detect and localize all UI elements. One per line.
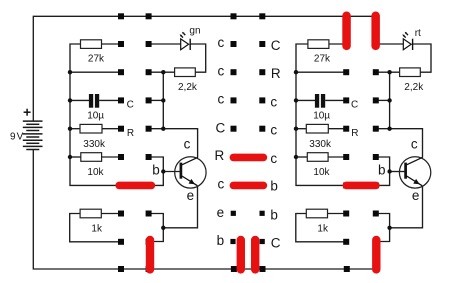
- wire junction (70,72.2): [68, 70, 72, 74]
- node contact x346 row 5: [343, 154, 349, 160]
- wire emitter T1 down: [163, 186, 197, 228]
- node contact x376 row 1: [373, 41, 379, 47]
- wire junction (163.3,171.5): [161, 169, 165, 173]
- svg-text:R: R: [127, 128, 134, 139]
- node contact x262 row 8: [260, 239, 265, 244]
- resistor 2,2k left: [175, 68, 198, 93]
- node contact x234 bottom rail: [231, 266, 237, 272]
- svg-text:c: c: [411, 137, 418, 152]
- wire junction (296,72.2): [294, 70, 298, 74]
- svg-text:1k: 1k: [317, 223, 329, 234]
- resistor 10k left: [81, 153, 105, 178]
- wire base T2: [390, 171, 405, 173]
- LED rt right: [402, 28, 421, 50]
- node contact x234 top rail: [231, 13, 237, 19]
- svg-text:330k: 330k: [83, 139, 106, 150]
- contact squares: [118, 13, 379, 272]
- node contact x346 row 8: [343, 239, 349, 245]
- node contact x234 row 2: [231, 69, 237, 75]
- wire 10u right half to node C: [325, 99, 344, 101]
- capacitor 10u right: [313, 94, 330, 122]
- node contact x262 row 1: [259, 41, 265, 47]
- wire junction (70,100.4): [68, 98, 72, 102]
- wire 1k left loop to node b: [70, 214, 119, 242]
- wire 10k right half left: [296, 156, 307, 158]
- wire 2.2k right left side: [377, 71, 400, 73]
- node contact x149 row 8: [146, 239, 152, 245]
- svg-text:9V: 9V: [10, 131, 24, 142]
- node contact x376 row 4: [373, 126, 379, 132]
- red jumpers: [115, 12, 380, 274]
- wire 330k right to node R: [102, 128, 119, 130]
- wire junction (70,128.7): [68, 127, 72, 131]
- node contact x121 row 7: [118, 211, 124, 217]
- jumper left bus to base T1: [115, 182, 155, 190]
- node contact x376 row 7: [373, 211, 379, 217]
- wire 10k left: [70, 156, 81, 158]
- wire 330k left: [70, 128, 80, 130]
- jumper emitter T2 to ground: [372, 236, 380, 274]
- wire 27k left to node: [102, 43, 120, 45]
- node contact x376 row 5: [373, 154, 379, 160]
- svg-text:b: b: [378, 163, 386, 178]
- node contact x376 bottom rail: [373, 266, 379, 272]
- svg-text:R: R: [214, 148, 224, 163]
- node contact x346 row 4: [343, 126, 349, 132]
- svg-text:c: c: [184, 137, 191, 152]
- resistor 10k right: [307, 153, 330, 178]
- svg-text:C: C: [351, 99, 358, 110]
- resistor 330k right: [306, 124, 332, 150]
- node contact x262 row 3: [259, 97, 265, 103]
- node letters middle right column: [270, 38, 281, 251]
- node contact x149 bottom rail: [146, 266, 152, 272]
- wire 1k right half loop to node b: [296, 214, 345, 242]
- svg-text:c: c: [270, 123, 277, 138]
- svg-text:R: R: [271, 66, 281, 81]
- transistor T1: [152, 137, 206, 203]
- wire node to base net T1: [151, 157, 163, 185]
- svg-text:e: e: [412, 188, 420, 203]
- node contact x262 row 4: [259, 126, 265, 132]
- wire junction (163.3,72.2): [161, 70, 165, 74]
- svg-text:10µ: 10µ: [313, 111, 330, 122]
- node contact x346 row 1: [343, 41, 349, 47]
- wire left vertical net c: [162, 72, 164, 129]
- node contact x121 row 8: [118, 239, 124, 245]
- jumper middle b to ground: [237, 236, 245, 274]
- wire LED gn cathode down to 2.2k: [190, 44, 205, 72]
- node contact x376 row 3: [373, 97, 379, 103]
- node contact x121 row 3: [118, 97, 124, 103]
- wire right bus rail: [296, 44, 343, 185]
- svg-text:330k: 330k: [309, 139, 332, 150]
- node contact x233 row 7: [231, 211, 236, 216]
- node contact x121 row 2: [118, 69, 124, 75]
- svg-text:10k: 10k: [87, 167, 104, 178]
- wire junction (389.6,128.7): [387, 127, 391, 131]
- node contact x149 top rail: [146, 13, 152, 19]
- wire junction (389.6,72.2): [387, 70, 391, 74]
- jumper middle row R: [230, 154, 268, 162]
- svg-text:27k: 27k: [88, 53, 105, 64]
- node contact x347 bottom rail: [344, 266, 350, 272]
- wire node R to collector T1: [151, 129, 198, 158]
- wire junction (296,100.4): [294, 98, 298, 102]
- resistor 330k left: [80, 124, 106, 150]
- resistor 27k left: [81, 40, 106, 65]
- capacitor 10u left: [87, 94, 104, 122]
- node contact x121 row 1: [118, 41, 124, 47]
- wire junction (296,157): [294, 155, 298, 159]
- svg-text:1k: 1k: [91, 223, 103, 234]
- node contact x262 row 2: [259, 69, 265, 75]
- node contact x346 row 7: [343, 211, 349, 217]
- wire left bus row2: [70, 71, 119, 73]
- svg-text:2,2k: 2,2k: [404, 82, 424, 93]
- svg-text:b: b: [270, 207, 278, 222]
- svg-text:e: e: [217, 205, 225, 220]
- node contact x149 row 6: [146, 182, 152, 188]
- svg-text:27k: 27k: [314, 53, 331, 64]
- node contact x262 top rail: [259, 13, 265, 19]
- wire top supply rail: [33, 16, 375, 121]
- wire 330k right half to node R: [328, 128, 344, 130]
- node contact x262 bottom rail: [260, 266, 266, 272]
- resistor 2,2k right: [400, 68, 425, 93]
- wire junction (70,157): [68, 155, 72, 159]
- node contact x376 row 2: [373, 69, 379, 75]
- wire node e to emitter net T1: [151, 214, 163, 242]
- node contact x376 row 6: [373, 182, 379, 188]
- node contact x234 row 3: [231, 97, 237, 103]
- svg-text:C: C: [271, 38, 281, 53]
- LED gn left: [180, 26, 201, 51]
- wire junction (163.3,128.7): [161, 127, 165, 131]
- node contact x346 row 6: [343, 182, 349, 188]
- wire right bus row2: [296, 71, 345, 73]
- node contact x121 bottom rail: [118, 266, 124, 272]
- wire junction (163.3,227.8): [161, 226, 165, 230]
- svg-text:c: c: [270, 94, 277, 109]
- svg-text:c: c: [217, 63, 224, 78]
- wire bottom supply rail: [33, 150, 377, 270]
- wire junction (296,128.7): [294, 127, 298, 131]
- node contact x149 row 3: [146, 97, 152, 103]
- resistor 1k left: [80, 209, 103, 234]
- node contact x149 row 7: [146, 211, 152, 217]
- wire node to LED gn anode: [151, 43, 181, 45]
- jumper right bus to base T2: [343, 182, 380, 190]
- wire node e to emitter net T2: [377, 214, 390, 242]
- svg-text:b: b: [270, 178, 278, 193]
- svg-text:e: e: [187, 188, 195, 203]
- node contact x149 row 1: [146, 41, 152, 47]
- svg-text:C: C: [271, 236, 281, 251]
- node contact x234 row 4: [231, 126, 237, 132]
- svg-text:2,2k: 2,2k: [178, 82, 198, 93]
- svg-text:c: c: [217, 177, 224, 192]
- svg-text:10k: 10k: [313, 167, 330, 178]
- wire LED rt cathode down to 2.2k: [413, 44, 431, 72]
- wire 2.2k left to node c: [151, 71, 175, 73]
- wire junction (163.3,100.4): [161, 98, 165, 102]
- wire node to base net T2: [377, 157, 390, 185]
- wire junction (389.6,227.8): [387, 226, 391, 230]
- wire 10k right to node: [102, 156, 119, 158]
- wire 330k right half left: [296, 128, 306, 130]
- node contact x346 row 3: [343, 97, 349, 103]
- wire junction (389.6,171.5): [387, 169, 391, 173]
- node contact x149 row 4: [146, 126, 152, 132]
- svg-text:c: c: [270, 151, 277, 166]
- svg-text:rt: rt: [415, 28, 421, 39]
- node contact x346 row 2: [343, 69, 349, 75]
- wire 27k right to node: [328, 43, 345, 45]
- svg-text:b: b: [152, 163, 160, 178]
- node contact x121 row 5: [118, 154, 124, 160]
- svg-text:c: c: [217, 92, 224, 107]
- wire 1k right to node: [101, 213, 119, 215]
- node contact x149 row 2: [146, 69, 152, 75]
- node contact x149 row 5: [146, 154, 152, 160]
- jumper emitter T1 to ground: [146, 236, 154, 274]
- wire emitter T2 down: [390, 186, 423, 228]
- transistor T2: [378, 137, 431, 203]
- svg-text:C: C: [215, 120, 225, 135]
- wire left bus rail: [70, 44, 116, 185]
- wire node R to collector T2: [377, 129, 423, 158]
- wire node C link right: [377, 99, 390, 101]
- svg-text:b: b: [217, 233, 225, 248]
- wire 1k right half to node: [328, 213, 345, 215]
- node contact x262 row 7: [260, 211, 265, 216]
- node letters middle left column: [214, 35, 225, 248]
- node contact x234 row 1: [231, 41, 237, 47]
- svg-text:C: C: [127, 99, 134, 110]
- wire 10u right half left: [296, 99, 315, 101]
- wire node to LED rt anode: [379, 43, 404, 45]
- node contact x121 top rail: [118, 13, 124, 19]
- svg-text:R: R: [351, 128, 358, 139]
- svg-text:10µ: 10µ: [87, 111, 104, 122]
- node contact x233 row 8: [230, 239, 235, 244]
- jumper top rail to 27k right: [342, 12, 351, 51]
- jumper middle C to ground: [251, 236, 259, 274]
- wire 10u right to node C: [99, 99, 119, 101]
- wire 10u left: [70, 99, 89, 101]
- wire base T1: [163, 171, 179, 173]
- node contact x121 row 6: [118, 182, 124, 188]
- wire node C link: [151, 99, 163, 101]
- wire right vertical net c: [389, 72, 391, 129]
- battery 9V: [23, 121, 43, 149]
- resistor 1k right: [306, 209, 329, 234]
- wire 10k right half to node: [328, 156, 344, 158]
- battery plus sign: [24, 109, 31, 116]
- svg-text:gn: gn: [189, 26, 200, 37]
- jumper middle row b: [230, 182, 268, 190]
- node contact x121 row 4: [118, 126, 124, 132]
- svg-text:c: c: [217, 35, 224, 50]
- jumper top rail to LED rt: [371, 12, 380, 51]
- node contact x376 row 8: [373, 239, 379, 245]
- wire junction (389.6,100.4): [387, 98, 391, 102]
- resistor 27k right: [308, 40, 331, 65]
